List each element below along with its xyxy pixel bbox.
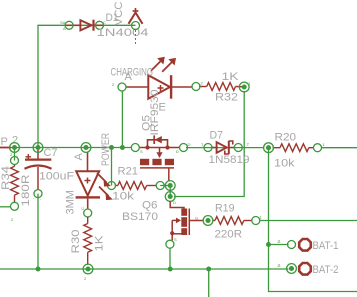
resistor R32: [192, 71, 249, 104]
LED1 CHARGING: [111, 57, 193, 99]
capacitor C7: [25, 147, 75, 200]
svg-text:10k: 10k: [274, 158, 295, 170]
svg-text:1N4004: 1N4004: [97, 27, 149, 39]
wire rail to R21: [111, 148, 113, 186]
svg-text:S: S: [174, 237, 177, 242]
resistor R19: [203, 203, 260, 241]
diode D7 1N5819: [204, 130, 250, 167]
wire main rail y=147.5: [10, 147, 131, 149]
svg-text:R30: R30: [70, 230, 82, 254]
wire Q6 drain to gate pads vertical: [169, 186, 171, 197]
svg-text:S: S: [140, 149, 143, 154]
diode D1: [60, 12, 149, 39]
svg-text:R21: R21: [118, 166, 139, 178]
wire R32 junction down to Q6 drain row: [174, 91, 244, 197]
svg-text:C7: C7: [44, 147, 58, 159]
svg-text:1N5819: 1N5819: [209, 154, 250, 166]
resistor R34: [0, 157, 32, 211]
svg-text:220R: 220R: [215, 229, 243, 241]
wire R19 to right edge: [260, 220, 357, 222]
svg-text:G: G: [195, 216, 198, 221]
svg-text:C: C: [80, 207, 85, 210]
svg-text:VCC: VCC: [113, 1, 125, 25]
svg-text:100uF: 100uF: [39, 171, 74, 183]
junction ground x170.5: [168, 267, 173, 272]
junction rail x38: [33, 143, 43, 153]
junction bat1: [266, 242, 271, 247]
connector P pin 2: [0, 134, 18, 148]
wire R20 junction down to bottom right corner: [269, 148, 357, 292]
wire top from corner to VCC: [38, 25, 136, 147]
wire R34 top to rail: [14, 148, 16, 161]
wire rail to LED1 anode: [121, 91, 123, 148]
svg-text:1K: 1K: [222, 71, 240, 83]
svg-text:Q6: Q6: [142, 200, 158, 212]
svg-text:R34: R34: [0, 166, 12, 190]
junction rail x111.5: [109, 145, 114, 150]
svg-text:R20: R20: [275, 132, 297, 144]
wire C7 bottom to ground rail: [37, 194, 39, 269]
svg-text:C: C: [103, 20, 106, 25]
svg-text:D: D: [188, 142, 191, 147]
svg-text:3MM: 3MM: [65, 190, 77, 214]
wire Q5 drain to D7 to R20: [186, 147, 264, 149]
svg-text:180R: 180R: [20, 174, 32, 206]
tiny pin marks: [10, 20, 326, 281]
svg-text:A: A: [125, 71, 133, 83]
wire R20 to right edge: [322, 147, 357, 149]
svg-text:SA: SA: [60, 20, 66, 25]
svg-text:D: D: [176, 149, 179, 154]
wire ground rail branch down: [208, 269, 210, 297]
wire Q6 source to ground rail: [169, 248, 171, 269]
svg-text:A: A: [63, 26, 66, 31]
wire to BAT-1: [269, 244, 289, 246]
junction ground x38: [36, 267, 41, 272]
wire R34 bottom to left edge: [0, 206, 11, 208]
svg-text:E: E: [159, 102, 166, 114]
supply VCC: [113, 1, 143, 45]
svg-text:P: P: [1, 136, 8, 148]
junction ground x208.7: [206, 267, 211, 272]
svg-text:R19: R19: [215, 203, 235, 215]
mosfet Q6 BS170: [122, 181, 204, 249]
svg-text:2: 2: [12, 134, 18, 146]
svg-text:D7: D7: [210, 130, 224, 142]
svg-text:BAT-2: BAT-2: [313, 264, 339, 276]
wire R21 to Q5 gate pad: [160, 185, 170, 187]
LED2 POWER: [65, 133, 113, 217]
connector BAT-1: [277, 239, 339, 252]
resistor R30: [70, 217, 106, 274]
svg-text:10k: 10k: [112, 191, 135, 203]
junction rail x14.5: [10, 143, 20, 153]
connector BAT-2: [277, 263, 339, 276]
svg-text:1K: 1K: [94, 235, 106, 252]
svg-text:D: D: [173, 200, 176, 205]
resistor R21: [108, 166, 165, 203]
wire ground rail: [0, 268, 289, 270]
svg-text:BAT-1: BAT-1: [313, 240, 339, 252]
mosfet Q5 IRF9530: [131, 90, 187, 182]
svg-text:BS170: BS170: [122, 211, 158, 223]
svg-text:A: A: [73, 153, 85, 161]
junction rail x122.4: [120, 145, 125, 150]
resistor R20: [264, 132, 322, 170]
svg-text:R32: R32: [215, 92, 238, 104]
